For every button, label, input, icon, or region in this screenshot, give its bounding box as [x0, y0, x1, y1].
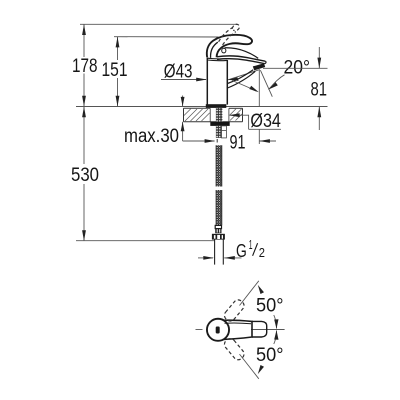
shank below nut: [216, 126, 222, 138]
mounting nut: [210, 122, 229, 126]
base flange: [206, 104, 227, 108]
dimension 91: [183, 132, 276, 153]
handle cap circle: [207, 319, 229, 341]
dimension max.30: [124, 96, 185, 148]
svg-text:20°: 20°: [284, 57, 311, 78]
D43 right arrow / 20deg ray to aerator: [228, 70, 260, 81]
svg-text:max.30: max.30: [124, 126, 179, 147]
extension line 178 top: [80, 23, 237, 25]
lower 50 deg line: [240, 354, 259, 379]
svg-text:1: 1: [249, 238, 253, 252]
flexible hose braided lower segment: [216, 190, 222, 225]
dimension 178: [72, 24, 98, 106]
lever handle (side view): [207, 35, 258, 59]
dashed handle rotated up 50: [222, 298, 246, 323]
raised lever dashed position: [219, 24, 240, 45]
hose ferrule: [215, 225, 221, 233]
threaded shank through counter: [216, 108, 223, 122]
svg-text:50°: 50°: [256, 296, 284, 317]
D34 vertical extension line: [258, 70, 260, 108]
fitting beside shank: [222, 126, 227, 138]
extension line 151: [114, 36, 219, 38]
counter hatching right: [229, 109, 242, 121]
lower arc arrow at line: [258, 365, 264, 374]
upper 50 deg line: [240, 281, 259, 306]
20 deg annotation: [232, 57, 310, 96]
upper arc stub at axis: [274, 315, 277, 329]
connection tube G1/2: [215, 239, 224, 264]
lower arc stub at axis: [274, 331, 277, 345]
svg-text:2: 2: [259, 246, 265, 260]
upper arc arrow at line: [258, 285, 264, 294]
svg-text:Ø34: Ø34: [250, 111, 281, 132]
svg-text:530: 530: [71, 165, 99, 186]
label D34 with box and leader: [229, 111, 281, 132]
spout: [217, 56, 266, 88]
aerator: [253, 63, 265, 70]
dimension 151: [102, 37, 128, 107]
dimension G 1/2: [198, 238, 265, 261]
handle lever top view: [223, 320, 267, 339]
svg-text:91: 91: [230, 132, 246, 153]
extension line hose end: [76, 240, 215, 242]
svg-text:151: 151: [102, 60, 128, 81]
svg-text:G: G: [236, 241, 247, 261]
hose center tick: [216, 139, 218, 143]
svg-text:50°: 50°: [256, 345, 284, 366]
svg-text:178: 178: [72, 56, 98, 77]
logo dot inside cap: [216, 327, 220, 334]
svg-text:81: 81: [311, 80, 328, 101]
counter surface reference line: [76, 106, 328, 108]
axis center line: [196, 329, 203, 331]
counter hatching left: [184, 109, 210, 121]
dashed handle rotated down 50: [222, 337, 246, 362]
flexible hose braided upper segment: [216, 145, 222, 186]
dimension label D43 with leader: [161, 61, 207, 82]
faucet body column: [207, 58, 227, 105]
dimension 530: [71, 107, 99, 242]
dimension 81: [263, 47, 328, 130]
counter slab section: [184, 108, 243, 122]
hex nut at hose end: [212, 234, 225, 240]
